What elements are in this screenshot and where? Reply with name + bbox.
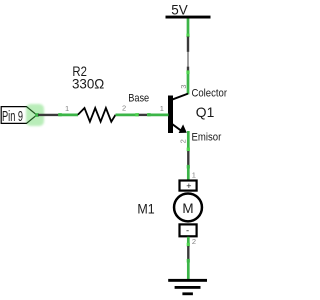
- wire motor to ground (black): [187, 246, 189, 259]
- svg-text:Base: Base: [128, 93, 149, 105]
- 5V pin (green): [187, 19, 190, 37]
- svg-text:2: 2: [179, 139, 188, 143]
- emitter lead diagonal: [171, 123, 181, 130]
- base bar: [168, 96, 173, 134]
- svg-text:2: 2: [192, 237, 196, 246]
- wire junction knot: [58, 113, 62, 116]
- svg-text:1: 1: [192, 171, 196, 180]
- transistor Q1: [168, 94, 188, 133]
- svg-text:1: 1: [65, 104, 69, 113]
- motor pin 1 (green): [187, 165, 190, 181]
- motor pin 2 (green): [187, 237, 190, 246]
- emitter pin (green): [187, 131, 190, 151]
- svg-text:M: M: [182, 200, 193, 216]
- wire lower dark segment: [187, 67, 189, 72]
- svg-text:M1: M1: [137, 201, 154, 217]
- motor body circle: [174, 193, 202, 221]
- wire junction knot: [186, 70, 189, 74]
- wire junction knot: [186, 34, 189, 38]
- svg-text:330Ω: 330Ω: [72, 75, 104, 91]
- connection point dot: [35, 113, 39, 117]
- svg-text:Q1: Q1: [196, 104, 215, 120]
- svg-text:-: -: [186, 225, 189, 236]
- svg-text:Pin 9: Pin 9: [2, 108, 23, 125]
- wire emitter to motor (black): [187, 151, 189, 165]
- svg-text:Emisor: Emisor: [192, 132, 222, 144]
- wire junction knot: [187, 148, 190, 152]
- resistor R2 zigzag: [78, 108, 116, 122]
- svg-text:1: 1: [160, 104, 164, 113]
- svg-text:5V: 5V: [171, 1, 188, 17]
- net label Pin 9: [1, 104, 44, 126]
- wire junction knot: [135, 113, 139, 116]
- svg-text:2: 2: [122, 104, 126, 113]
- wire junction knot: [187, 243, 190, 247]
- wire junction knot: [147, 113, 151, 116]
- plus terminal box: [180, 181, 197, 191]
- svg-text:+: +: [186, 181, 191, 191]
- green connection glow: [26, 104, 44, 126]
- wire Pin9 to resistor (black): [38, 114, 59, 116]
- wire junction knot: [187, 165, 190, 169]
- wire 5V to collector (black segment): [187, 37, 189, 52]
- wire thin middle segment: [187, 52, 189, 67]
- base pin (green): [147, 114, 168, 117]
- emitter arrowhead: [179, 124, 187, 133]
- svg-text:Colector: Colector: [192, 88, 228, 100]
- resistor pin 1 (green): [59, 114, 79, 117]
- ground pin (green): [187, 259, 190, 281]
- wire junction knot: [187, 259, 190, 263]
- wire resistor to base (black): [139, 114, 148, 116]
- label box: [1, 107, 37, 124]
- ground symbol: [168, 279, 207, 295]
- collector pin (green): [187, 71, 190, 95]
- svg-text:3: 3: [179, 85, 188, 89]
- motor M1: [174, 181, 202, 237]
- power symbol 5V: [166, 1, 211, 18]
- minus terminal box: [180, 224, 197, 236]
- collector lead diagonal: [171, 94, 189, 101]
- resistor pin 2 (green): [116, 114, 139, 117]
